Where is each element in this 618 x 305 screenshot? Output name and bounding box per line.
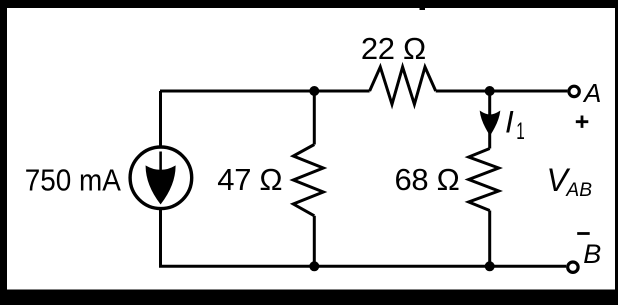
junction dot bottom-mid (309, 261, 319, 271)
svg-text:47 Ω: 47 Ω (217, 162, 282, 197)
wire 68-ohm branch bottom (488, 211, 491, 267)
top border notch (420, 8, 426, 10)
terminal A circle (569, 86, 579, 96)
current arrow I1 head (480, 111, 500, 135)
svg-text:AB: AB (565, 180, 592, 201)
junction dot bottom-right (485, 261, 495, 271)
wire top left horizontal (160, 90, 370, 93)
wire 47-ohm branch bottom (313, 216, 316, 266)
resistor 68 ohm zigzag (469, 149, 499, 211)
svg-text:I: I (505, 103, 514, 139)
label minus (577, 232, 590, 235)
current source circle (130, 147, 192, 209)
wire 68-ohm branch top (488, 91, 491, 149)
junction dot top-mid (309, 86, 319, 96)
junction dot top-right (485, 86, 495, 96)
svg-text:750 mA: 750 mA (25, 163, 121, 198)
terminal B circle (568, 262, 578, 272)
wire 47-ohm branch top (313, 91, 316, 145)
resistor 47 ohm zigzag (293, 145, 323, 216)
current source arrow (159, 152, 162, 172)
resistor 22 ohm zigzag (370, 67, 436, 104)
wire top right horizontal (436, 90, 568, 93)
wire bottom horizontal (159, 265, 566, 268)
svg-text:A: A (582, 78, 601, 108)
label plus (576, 116, 589, 128)
wire left vertical lower (159, 209, 162, 267)
svg-text:68 Ω: 68 Ω (395, 162, 460, 197)
wire left vertical upper (159, 91, 162, 148)
svg-text:1: 1 (516, 118, 525, 145)
svg-text:B: B (583, 239, 601, 269)
svg-text:22 Ω: 22 Ω (361, 31, 426, 66)
